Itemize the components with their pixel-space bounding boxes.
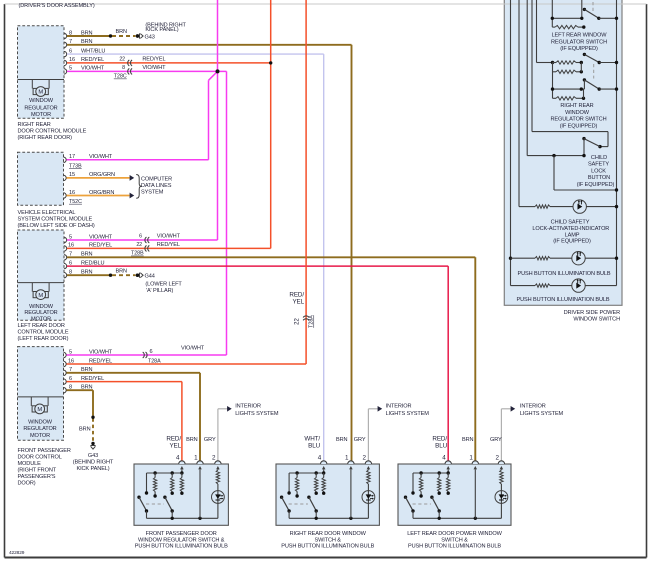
svg-text:G44: G44	[145, 274, 155, 280]
svg-text:SYSTEM: SYSTEM	[141, 190, 164, 196]
svg-text:WINDOW SWITCH: WINDOW SWITCH	[573, 317, 620, 323]
svg-text:7: 7	[69, 367, 72, 373]
svg-text:PUSH BUTTON ILLUMINATION BULB: PUSH BUTTON ILLUMINATION BULB	[135, 544, 228, 550]
svg-text:BRN: BRN	[81, 367, 93, 373]
svg-text:SAFETY: SAFETY	[588, 162, 609, 168]
svg-text:PUSH BUTTON ILLUMINATION BULB: PUSH BUTTON ILLUMINATION BULB	[281, 544, 374, 550]
svg-text:G43: G43	[145, 34, 155, 40]
svg-text:BRN: BRN	[186, 437, 198, 443]
svg-text:FRONT PASSENGER: FRONT PASSENGER	[18, 448, 71, 454]
svg-text:(RIGHT REAR DOOR): (RIGHT REAR DOOR)	[18, 135, 73, 141]
svg-text:RED/YEL: RED/YEL	[142, 56, 165, 62]
svg-text:6: 6	[139, 234, 142, 240]
svg-text:(BEHIND RIGHT: (BEHIND RIGHT	[73, 460, 114, 466]
svg-text:RED/BLU: RED/BLU	[81, 260, 104, 266]
svg-text:RED/YEL: RED/YEL	[81, 376, 104, 382]
svg-text:M: M	[38, 293, 43, 299]
svg-text:422829: 422829	[9, 550, 25, 556]
svg-text:16: 16	[69, 190, 75, 196]
svg-text:DOOR CONTROL MODULE: DOOR CONTROL MODULE	[18, 129, 87, 135]
svg-text:ORG/GRN: ORG/GRN	[89, 172, 115, 178]
svg-text:BRN: BRN	[81, 385, 93, 391]
svg-text:LOCK-ACTIVATED-INDICATOR: LOCK-ACTIVATED-INDICATOR	[532, 226, 609, 232]
svg-text:BRN: BRN	[79, 426, 91, 432]
svg-text:22: 22	[119, 56, 125, 62]
svg-text:FRONT PASSENGER DOOR: FRONT PASSENGER DOOR	[146, 531, 217, 537]
svg-text:T28B: T28B	[131, 251, 144, 257]
svg-text:BRN: BRN	[81, 39, 93, 45]
svg-text:16: 16	[68, 358, 74, 364]
svg-text:VIO/WHT: VIO/WHT	[142, 65, 166, 71]
svg-text:LEFT REAR DOOR POWER WINDOW: LEFT REAR DOOR POWER WINDOW	[407, 531, 502, 537]
svg-text:YEL: YEL	[292, 298, 304, 305]
svg-text:8: 8	[69, 385, 72, 391]
svg-text:(IF EQUIPPED): (IF EQUIPPED)	[577, 182, 615, 188]
svg-text:PUSH BUTTON ILLUMINATION BULB: PUSH BUTTON ILLUMINATION BULB	[408, 544, 501, 550]
svg-text:8: 8	[69, 270, 72, 276]
svg-text:YEL: YEL	[169, 442, 181, 449]
svg-text:MOTOR: MOTOR	[31, 316, 51, 322]
svg-text:CHILD SAFETY: CHILD SAFETY	[551, 220, 590, 226]
svg-text:BRN: BRN	[462, 437, 474, 443]
svg-text:MODULE: MODULE	[18, 461, 42, 467]
svg-text:BRN: BRN	[116, 268, 128, 274]
svg-text:VIO/WHT: VIO/WHT	[89, 154, 113, 160]
svg-text:(LEFT REAR DOOR): (LEFT REAR DOOR)	[18, 336, 69, 342]
svg-text:INTERIOR: INTERIOR	[520, 404, 546, 410]
svg-text:RED/YEL: RED/YEL	[89, 358, 112, 364]
svg-text:SWITCH &: SWITCH &	[441, 537, 468, 543]
svg-text:(DRIVER'S DOOR ASSEMBLY): (DRIVER'S DOOR ASSEMBLY)	[19, 3, 95, 9]
svg-text:WHT/BLU: WHT/BLU	[81, 48, 105, 54]
svg-text:DOOR CONTROL: DOOR CONTROL	[18, 454, 62, 460]
svg-text:T73B: T73B	[69, 163, 82, 169]
svg-text:WINDOW: WINDOW	[29, 98, 54, 104]
svg-text:6: 6	[150, 349, 153, 355]
svg-text:T28A: T28A	[309, 315, 315, 328]
svg-text:KICK PANEL): KICK PANEL)	[145, 27, 178, 33]
svg-text:G43: G43	[88, 453, 98, 459]
svg-text:BLU: BLU	[308, 442, 320, 449]
svg-text:BRN: BRN	[81, 30, 93, 36]
svg-text:15: 15	[69, 172, 75, 178]
svg-text:(RIGHT FRONT: (RIGHT FRONT	[18, 467, 57, 473]
svg-text:BRN: BRN	[81, 270, 93, 276]
svg-text:GRY: GRY	[490, 437, 502, 443]
svg-text:INTERIOR: INTERIOR	[235, 404, 261, 410]
svg-text:LIGHTS SYSTEM: LIGHTS SYSTEM	[520, 411, 564, 417]
svg-text:5: 5	[69, 66, 72, 72]
svg-text:(IF EQUIPPED): (IF EQUIPPED)	[553, 239, 591, 245]
svg-text:PASSENGER'S: PASSENGER'S	[18, 474, 56, 480]
svg-text:22: 22	[136, 242, 142, 248]
svg-text:VIO/WHT: VIO/WHT	[157, 234, 181, 240]
svg-text:PUSH BUTTON ILLUMINATION BULB: PUSH BUTTON ILLUMINATION BULB	[518, 271, 611, 277]
svg-text:LEFT REAR DOOR: LEFT REAR DOOR	[18, 323, 65, 329]
svg-text:DRIVER SIDE POWER: DRIVER SIDE POWER	[564, 310, 620, 316]
svg-text:SYSTEM CONTROL MODULE: SYSTEM CONTROL MODULE	[18, 216, 93, 222]
svg-text:RED/YEL: RED/YEL	[157, 242, 180, 248]
svg-text:VIO/WHT: VIO/WHT	[89, 349, 113, 355]
svg-text:REGULATOR: REGULATOR	[24, 310, 57, 316]
svg-text:BRN: BRN	[81, 252, 93, 258]
svg-text:WINDOW: WINDOW	[565, 110, 590, 116]
svg-text:22: 22	[295, 318, 301, 325]
svg-text:WINDOW: WINDOW	[29, 304, 54, 310]
svg-text:M: M	[38, 90, 43, 96]
svg-text:16: 16	[69, 57, 75, 63]
svg-text:5: 5	[69, 234, 72, 240]
svg-text:LIGHTS SYSTEM: LIGHTS SYSTEM	[235, 411, 279, 417]
svg-text:REGULATOR SWITCH: REGULATOR SWITCH	[551, 117, 607, 123]
svg-text:7: 7	[69, 252, 72, 258]
svg-text:VIO/WHT: VIO/WHT	[89, 234, 113, 240]
svg-text:1: 1	[469, 455, 473, 462]
svg-text:BRN: BRN	[336, 437, 348, 443]
svg-text:LEFT REAR WINDOW: LEFT REAR WINDOW	[552, 33, 608, 39]
svg-text:MOTOR: MOTOR	[31, 112, 51, 118]
svg-text:6: 6	[69, 48, 72, 54]
svg-text:BRN: BRN	[116, 29, 128, 35]
svg-text:6: 6	[69, 260, 72, 266]
svg-text:(IF EQUIPPED): (IF EQUIPPED)	[560, 46, 598, 52]
svg-text:(BELOW LEFT SIDE OF DASH): (BELOW LEFT SIDE OF DASH)	[18, 223, 95, 229]
svg-text:SWITCH &: SWITCH &	[315, 537, 342, 543]
svg-text:ORG/BRN: ORG/BRN	[89, 190, 114, 196]
svg-text:GRY: GRY	[204, 437, 216, 443]
svg-text:VIO/WHT: VIO/WHT	[181, 345, 205, 351]
svg-text:INTERIOR: INTERIOR	[386, 404, 412, 410]
svg-text:COMPUTER: COMPUTER	[141, 176, 172, 182]
svg-text:8: 8	[122, 65, 125, 71]
svg-text:WINDOW REGULATOR SWITCH &: WINDOW REGULATOR SWITCH &	[138, 537, 225, 543]
svg-text:CONTROL MODULE: CONTROL MODULE	[18, 329, 69, 335]
svg-text:(LOWER LEFT: (LOWER LEFT	[145, 282, 182, 288]
svg-text:17: 17	[69, 154, 75, 160]
svg-text:T28C: T28C	[114, 74, 127, 80]
svg-text:5: 5	[69, 349, 72, 355]
svg-text:DATA LINES: DATA LINES	[141, 183, 172, 189]
svg-text:DOOR): DOOR)	[18, 480, 36, 486]
svg-text:REGULATOR: REGULATOR	[23, 426, 56, 432]
svg-text:LIGHTS SYSTEM: LIGHTS SYSTEM	[386, 411, 430, 417]
svg-text:RIGHT REAR: RIGHT REAR	[560, 103, 593, 109]
svg-text:RIGHT REAR DOOR WINDOW: RIGHT REAR DOOR WINDOW	[290, 531, 367, 537]
svg-text:T52C: T52C	[69, 199, 82, 205]
svg-text:REGULATOR SWITCH: REGULATOR SWITCH	[551, 39, 607, 45]
svg-text:(IF EQUIPPED): (IF EQUIPPED)	[560, 123, 598, 129]
svg-text:8: 8	[69, 30, 72, 36]
svg-text:GRY: GRY	[354, 437, 366, 443]
svg-text:KICK PANEL): KICK PANEL)	[76, 466, 109, 472]
svg-text:REGULATOR: REGULATOR	[24, 105, 57, 111]
svg-text:CHILD: CHILD	[591, 155, 607, 161]
svg-text:PUSH BUTTON ILLUMINATION BULB: PUSH BUTTON ILLUMINATION BULB	[517, 297, 610, 303]
svg-text:VIO/WHT: VIO/WHT	[81, 66, 105, 72]
svg-text:BLU: BLU	[435, 442, 447, 449]
svg-text:M: M	[37, 407, 42, 413]
svg-text:LAMP: LAMP	[565, 232, 580, 238]
svg-text:16: 16	[68, 243, 74, 249]
svg-text:MOTOR: MOTOR	[30, 433, 50, 439]
svg-text:7: 7	[69, 39, 72, 45]
svg-text:VEHICLE ELECTRICAL: VEHICLE ELECTRICAL	[18, 210, 76, 216]
svg-text:WINDOW: WINDOW	[28, 420, 53, 426]
svg-text:RIGHT REAR: RIGHT REAR	[18, 122, 51, 128]
svg-text:6: 6	[69, 376, 72, 382]
svg-text:RED/YEL: RED/YEL	[89, 243, 112, 249]
svg-text:BUTTON: BUTTON	[588, 175, 610, 181]
svg-text:'A' PILLAR): 'A' PILLAR)	[146, 288, 173, 294]
svg-text:RED/YEL: RED/YEL	[81, 57, 104, 63]
svg-text:LOCK: LOCK	[591, 168, 606, 174]
